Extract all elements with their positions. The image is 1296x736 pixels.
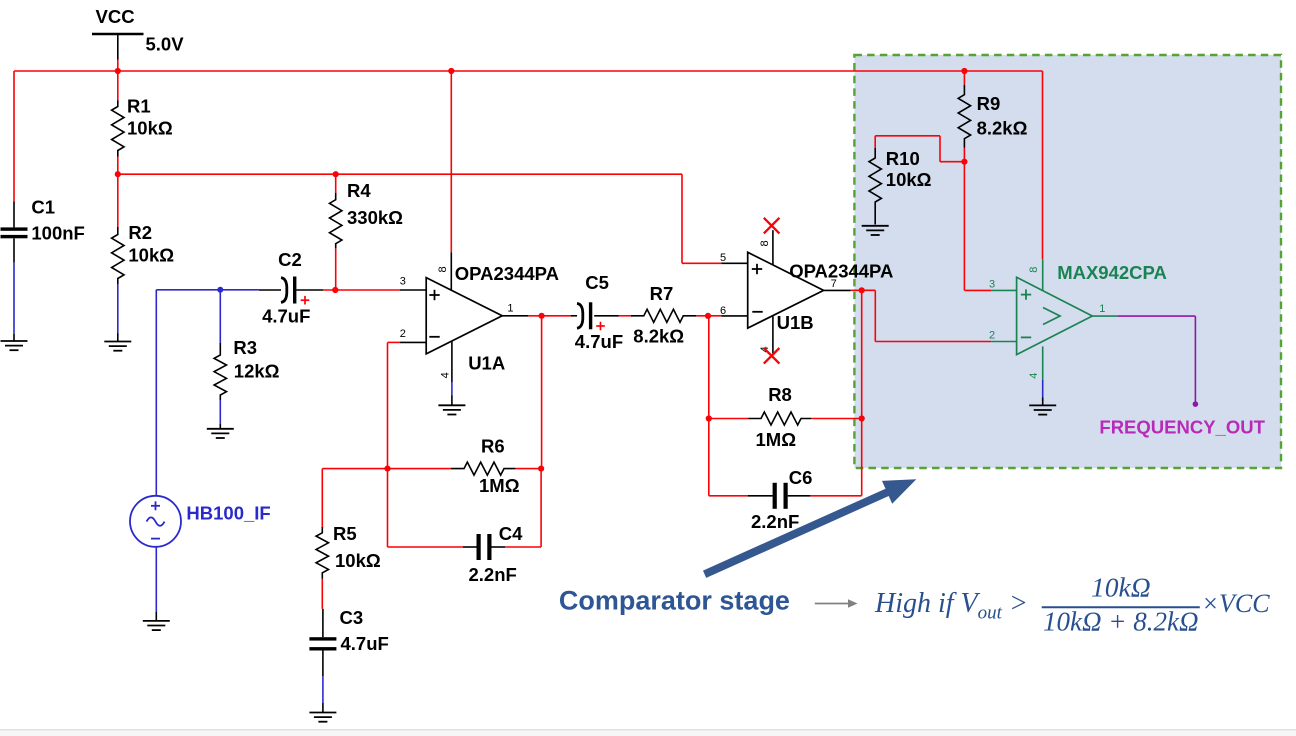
annotation formula numerator 10kΩ bbox=[1091, 572, 1151, 603]
U1B pin number 8 (rotated) bbox=[759, 240, 771, 246]
svg-text:FREQUENCY_OUT: FREQUENCY_OUT bbox=[1099, 417, 1265, 438]
bottom window strip bbox=[0, 730, 1296, 736]
R7 label bbox=[650, 283, 674, 304]
C5 value 4.7uF bbox=[575, 331, 623, 352]
wire R5 top bbox=[321, 469, 323, 527]
wire HB100 to C2 (blue) bbox=[156, 289, 258, 291]
svg-text:2: 2 bbox=[989, 329, 995, 341]
VCC value 5.0V bbox=[146, 34, 185, 55]
U1A output stub pin1 bbox=[502, 315, 528, 317]
source HB100_IF (AC source symbol) bbox=[130, 496, 181, 547]
U1B pin8 stub bbox=[772, 230, 774, 265]
resistor R6 bbox=[451, 462, 516, 475]
svg-text:4.7uF: 4.7uF bbox=[575, 331, 623, 352]
svg-text:4.7uF: 4.7uF bbox=[341, 633, 389, 654]
svg-text:10kΩ: 10kΩ bbox=[127, 118, 173, 139]
resistor R7 bbox=[631, 309, 696, 322]
junction R9 / R10 divider bbox=[961, 159, 967, 165]
comparator stage box (shaded region with dashed border) bbox=[854, 55, 1281, 468]
C3 value 4.7uF bbox=[341, 633, 389, 654]
junction R1/R2 rail bbox=[115, 171, 121, 177]
wire mid rail R1-R2 junction to U1B pin5 branch bbox=[118, 173, 682, 175]
wire R8 C6 loop left vertical bbox=[708, 316, 710, 496]
R4 label bbox=[347, 180, 371, 201]
wire C2 output to U1A pin3 bbox=[296, 289, 400, 291]
ground under comparator bbox=[1029, 397, 1056, 414]
junction rail / R4 bbox=[333, 171, 339, 177]
wire U1A pin8 supply drop bbox=[450, 71, 452, 252]
U1B part label OPA2344PA bbox=[789, 260, 893, 281]
svg-text:10kΩ + 8.2kΩ: 10kΩ + 8.2kΩ bbox=[1043, 607, 1199, 637]
svg-text:OPA2344PA: OPA2344PA bbox=[455, 263, 559, 284]
U1A pin number 4 (rotated) bbox=[440, 372, 452, 378]
node FREQUENCY_OUT terminal bbox=[1193, 401, 1199, 407]
wire R9 bottom stub bbox=[963, 148, 965, 162]
comparator pin3 stub bbox=[991, 289, 1017, 291]
annotation big blue arrow bbox=[703, 479, 916, 578]
C4 label bbox=[499, 523, 523, 544]
svg-text:C6: C6 bbox=[789, 467, 813, 488]
U1B pin4 stub bbox=[772, 316, 774, 353]
U1B pin8 no-connect X bbox=[764, 218, 780, 234]
wire C5 to R7 bbox=[594, 315, 631, 317]
annotation formula xVCC bbox=[1202, 589, 1271, 618]
R8 label bbox=[768, 384, 792, 405]
junction R7 / U1B pin6 / feedback bbox=[705, 313, 711, 319]
svg-text:High if Vout >: High if Vout > bbox=[874, 588, 1028, 624]
svg-text:8.2kΩ: 8.2kΩ bbox=[977, 118, 1028, 139]
C2 label bbox=[278, 249, 302, 270]
op-amp U1A triangle bbox=[426, 278, 502, 354]
ground under U1A pin4 bbox=[438, 396, 465, 415]
svg-text:C5: C5 bbox=[585, 272, 609, 293]
svg-text:C2: C2 bbox=[278, 249, 302, 270]
ground under HB100 bbox=[143, 612, 170, 630]
R10 value 10kΩ bbox=[886, 169, 932, 190]
comparator pin number 1 bbox=[1099, 303, 1105, 315]
svg-text:5: 5 bbox=[720, 252, 726, 264]
C5 label bbox=[585, 272, 609, 293]
svg-text:R7: R7 bbox=[650, 283, 674, 304]
svg-text:C1: C1 bbox=[31, 197, 55, 218]
svg-text:U1B: U1B bbox=[777, 312, 814, 333]
capacitor C3 bbox=[309, 609, 336, 677]
svg-text:3: 3 bbox=[989, 278, 995, 290]
svg-text:R6: R6 bbox=[481, 436, 505, 457]
svg-text:R10: R10 bbox=[886, 148, 920, 169]
svg-text:100nF: 100nF bbox=[31, 222, 84, 243]
resistor R1 bbox=[112, 71, 124, 174]
resistor R4 bbox=[330, 174, 342, 248]
svg-text:Comparator stage: Comparator stage bbox=[559, 586, 790, 616]
svg-text:1: 1 bbox=[507, 302, 513, 314]
capacitor C1 bbox=[1, 201, 28, 262]
U1B pin number 7 bbox=[831, 278, 837, 290]
svg-text:8: 8 bbox=[1028, 267, 1040, 273]
comparator pin number 3 bbox=[989, 278, 995, 290]
R1 value 10kΩ bbox=[127, 118, 173, 139]
capacitor C2 (polarized) bbox=[259, 277, 297, 304]
R1 label bbox=[127, 96, 151, 117]
annotation formula denominator bbox=[1043, 607, 1199, 637]
svg-text:4.7uF: 4.7uF bbox=[262, 305, 310, 326]
C1 label bbox=[31, 197, 55, 218]
svg-text:MAX942CPA: MAX942CPA bbox=[1057, 262, 1167, 283]
wire R7 to U1B pin6 bbox=[696, 315, 721, 317]
C6 label bbox=[789, 467, 813, 488]
U1B pin number 4 (rotated) bbox=[759, 346, 771, 352]
junction U1A output / feedback bbox=[539, 313, 545, 319]
wire U1B output to comparator minus input bbox=[851, 290, 991, 341]
comparator output stub pin1 bbox=[1092, 315, 1118, 317]
R3 label bbox=[233, 337, 257, 358]
junction HB100 / R3 (blue) bbox=[217, 287, 223, 293]
U1A pin2 stub bbox=[400, 341, 426, 343]
R6 label bbox=[481, 436, 505, 457]
annotation Comparator stage text bbox=[559, 586, 790, 616]
R7 value 8.2kΩ bbox=[633, 326, 684, 347]
wire divider to comparator plus input bbox=[964, 162, 991, 291]
svg-text:2.2nF: 2.2nF bbox=[751, 511, 799, 532]
U1A part label OPA2344PA bbox=[455, 263, 559, 284]
wire HB100 vertical (blue) bbox=[155, 290, 157, 496]
wire R9 top stub bbox=[963, 71, 965, 85]
R5 value 10kΩ bbox=[335, 550, 381, 571]
comparator pin number 4 (rotated) bbox=[1028, 373, 1040, 379]
svg-text:330kΩ: 330kΩ bbox=[347, 207, 403, 228]
svg-text:10kΩ: 10kΩ bbox=[335, 550, 381, 571]
resistor R3 bbox=[214, 290, 226, 424]
wire C3 to ground (blue) bbox=[322, 676, 324, 703]
wire C1 to ground (blue) bbox=[13, 263, 15, 334]
svg-text:2: 2 bbox=[400, 328, 406, 340]
U1B pin number 6 bbox=[720, 305, 726, 317]
wire U1A pin2 feedback drop bbox=[388, 342, 400, 468]
svg-text:R4: R4 bbox=[347, 180, 371, 201]
svg-text:2.2nF: 2.2nF bbox=[469, 564, 517, 585]
svg-text:10kΩ: 10kΩ bbox=[886, 169, 932, 190]
U1B designator bbox=[777, 312, 814, 333]
comparator minus input mark bbox=[1021, 336, 1031, 338]
C4 value 2.2nF bbox=[469, 564, 517, 585]
svg-text:1: 1 bbox=[1099, 303, 1105, 315]
svg-text:R8: R8 bbox=[768, 384, 792, 405]
U1A pin3 stub bbox=[400, 289, 426, 291]
comparator part label MAX942CPA bbox=[1057, 262, 1167, 283]
svg-text:R2: R2 bbox=[128, 222, 152, 243]
junction R8 left bbox=[706, 415, 712, 421]
capacitor C4 bbox=[477, 534, 492, 560]
svg-text:4: 4 bbox=[1028, 373, 1040, 379]
U1A pin4 stub bbox=[451, 341, 453, 395]
resistor R5 bbox=[316, 527, 328, 579]
svg-text:10kΩ: 10kΩ bbox=[128, 245, 174, 266]
wire C6 row bbox=[709, 495, 862, 497]
U1B pin6 stub bbox=[721, 315, 747, 317]
wire C4 loop bbox=[388, 469, 542, 547]
wire R2 to ground (blue) bbox=[117, 284, 119, 334]
wire left rail down to C1 bbox=[13, 71, 15, 201]
svg-text:R1: R1 bbox=[127, 96, 151, 117]
wire R4 bottom to C2 output node bbox=[335, 248, 337, 290]
comparator U2 triangle bbox=[1017, 277, 1093, 354]
C5 polarity mark bbox=[596, 322, 605, 331]
svg-text:U1A: U1A bbox=[468, 353, 505, 374]
comparator pin number 8 (rotated) bbox=[1028, 267, 1040, 273]
ground under C3 bbox=[309, 703, 336, 722]
wire R6 row right bbox=[515, 468, 541, 470]
wire U1A output to C5 bbox=[528, 315, 577, 317]
svg-text:12kΩ: 12kΩ bbox=[234, 361, 280, 382]
U1B plus input mark bbox=[752, 264, 762, 274]
svg-text:R9: R9 bbox=[977, 93, 1001, 114]
junction C2 / R4 / U1A pin3 bbox=[332, 287, 338, 293]
R3 value 12kΩ bbox=[234, 361, 280, 382]
R10 label bbox=[886, 148, 920, 169]
R9 value 8.2kΩ bbox=[977, 118, 1028, 139]
resistor R9 bbox=[958, 85, 970, 148]
junction VCC rail / R9 bbox=[961, 68, 967, 74]
svg-text:R5: R5 bbox=[333, 523, 357, 544]
U1A minus input mark bbox=[429, 336, 439, 338]
wire comparator output (purple) bbox=[1118, 316, 1195, 404]
svg-text:10kΩ: 10kΩ bbox=[1091, 572, 1151, 603]
U1A plus input mark bbox=[429, 290, 439, 300]
U1A pin number 1 bbox=[507, 302, 513, 314]
svg-text:HB100_IF: HB100_IF bbox=[186, 503, 270, 524]
svg-text:C3: C3 bbox=[340, 607, 364, 628]
svg-text:1MΩ: 1MΩ bbox=[479, 475, 520, 496]
R5 label bbox=[333, 523, 357, 544]
capacitor C5 (polarized) bbox=[577, 302, 592, 329]
junction VCC rail / U1A pin8 bbox=[448, 68, 454, 74]
C6 value 2.2nF bbox=[751, 511, 799, 532]
comparator pin8 stub bbox=[1042, 259, 1044, 290]
U1B output stub pin7 bbox=[824, 289, 851, 291]
U1A pin number 2 bbox=[400, 328, 406, 340]
wire R8 row bbox=[709, 418, 862, 420]
junction feedback / R6 left bbox=[384, 466, 390, 472]
junction feedback / R6 right bbox=[538, 466, 544, 472]
comparator pin4 stub bbox=[1042, 346, 1044, 397]
ground under C1 bbox=[1, 334, 28, 350]
svg-text:6: 6 bbox=[720, 305, 726, 317]
C1 value 100nF bbox=[31, 222, 84, 243]
svg-text:C4: C4 bbox=[499, 523, 523, 544]
FREQUENCY_OUT net label bbox=[1099, 417, 1265, 438]
R8 value 1MΩ bbox=[756, 429, 797, 450]
R4 value 330kΩ bbox=[347, 207, 403, 228]
wire comparator pin8 supply drop bbox=[1042, 71, 1044, 259]
annotation formula High if Vout bbox=[874, 588, 1028, 624]
wire U1B pin5 branch bbox=[682, 174, 721, 263]
junction VCC rail / R1 bbox=[115, 68, 121, 74]
junction R8 right bbox=[859, 415, 865, 421]
resistor R8 bbox=[749, 412, 812, 425]
wire U1B output feedback vertical bbox=[861, 290, 863, 496]
R2 label bbox=[128, 222, 152, 243]
ground under R3 bbox=[207, 424, 234, 438]
svg-text:R3: R3 bbox=[233, 337, 257, 358]
comparator symbol mark bbox=[1043, 308, 1060, 325]
U1B minus input mark bbox=[752, 311, 762, 313]
ground under R10 bbox=[862, 226, 889, 235]
U1B pin number 5 bbox=[720, 252, 726, 264]
svg-text:4: 4 bbox=[440, 372, 452, 378]
annotation formula fraction bar bbox=[1042, 606, 1200, 608]
op-amp U1B triangle bbox=[748, 252, 824, 328]
resistor R2 bbox=[112, 174, 124, 284]
U1A designator bbox=[468, 353, 505, 374]
svg-text:×VCC: ×VCC bbox=[1202, 589, 1271, 618]
C3 label bbox=[340, 607, 364, 628]
svg-text:8.2kΩ: 8.2kΩ bbox=[633, 326, 684, 347]
annotation small gray arrow bbox=[815, 599, 858, 608]
wire R5 bottom to C3 bbox=[321, 579, 323, 609]
VCC label bbox=[96, 6, 135, 27]
U1B pin5 stub bbox=[721, 262, 747, 264]
C2 polarity mark bbox=[301, 296, 310, 305]
ground under R2 bbox=[104, 334, 131, 351]
comparator plus input mark bbox=[1021, 289, 1031, 299]
comparator pin number 2 bbox=[989, 329, 995, 341]
svg-text:1MΩ: 1MΩ bbox=[756, 429, 797, 450]
wire R6 row left bbox=[322, 468, 451, 470]
wire U1A output vertical to feedback bbox=[541, 316, 543, 469]
U1A pin8 stub bbox=[450, 252, 452, 290]
wire R9/R10 junction to R10 bbox=[875, 136, 964, 162]
R6 value 1MΩ bbox=[479, 475, 520, 496]
C2 value 4.7uF bbox=[262, 305, 310, 326]
comparator pin2 stub bbox=[991, 341, 1017, 343]
capacitor C6 bbox=[773, 483, 788, 509]
svg-text:VCC: VCC bbox=[96, 6, 135, 27]
U1A pin number 3 bbox=[400, 276, 406, 288]
svg-text:8: 8 bbox=[437, 266, 449, 272]
svg-text:3: 3 bbox=[400, 276, 406, 288]
HB100_IF label bbox=[186, 503, 270, 524]
resistor R10 bbox=[869, 148, 881, 225]
wire VCC top rail bbox=[14, 70, 1043, 72]
R2 value 10kΩ bbox=[128, 245, 174, 266]
wire HB100 to ground (blue) bbox=[155, 547, 157, 612]
svg-text:OPA2344PA: OPA2344PA bbox=[789, 260, 893, 281]
svg-text:5.0V: 5.0V bbox=[146, 34, 185, 55]
U1A pin number 8 (rotated) bbox=[437, 266, 449, 272]
svg-text:8: 8 bbox=[759, 240, 771, 246]
power VCC symbol bbox=[92, 34, 144, 71]
R9 label bbox=[977, 93, 1001, 114]
junction U1B output bbox=[859, 287, 865, 293]
U1B pin4 no-connect X bbox=[764, 348, 780, 364]
